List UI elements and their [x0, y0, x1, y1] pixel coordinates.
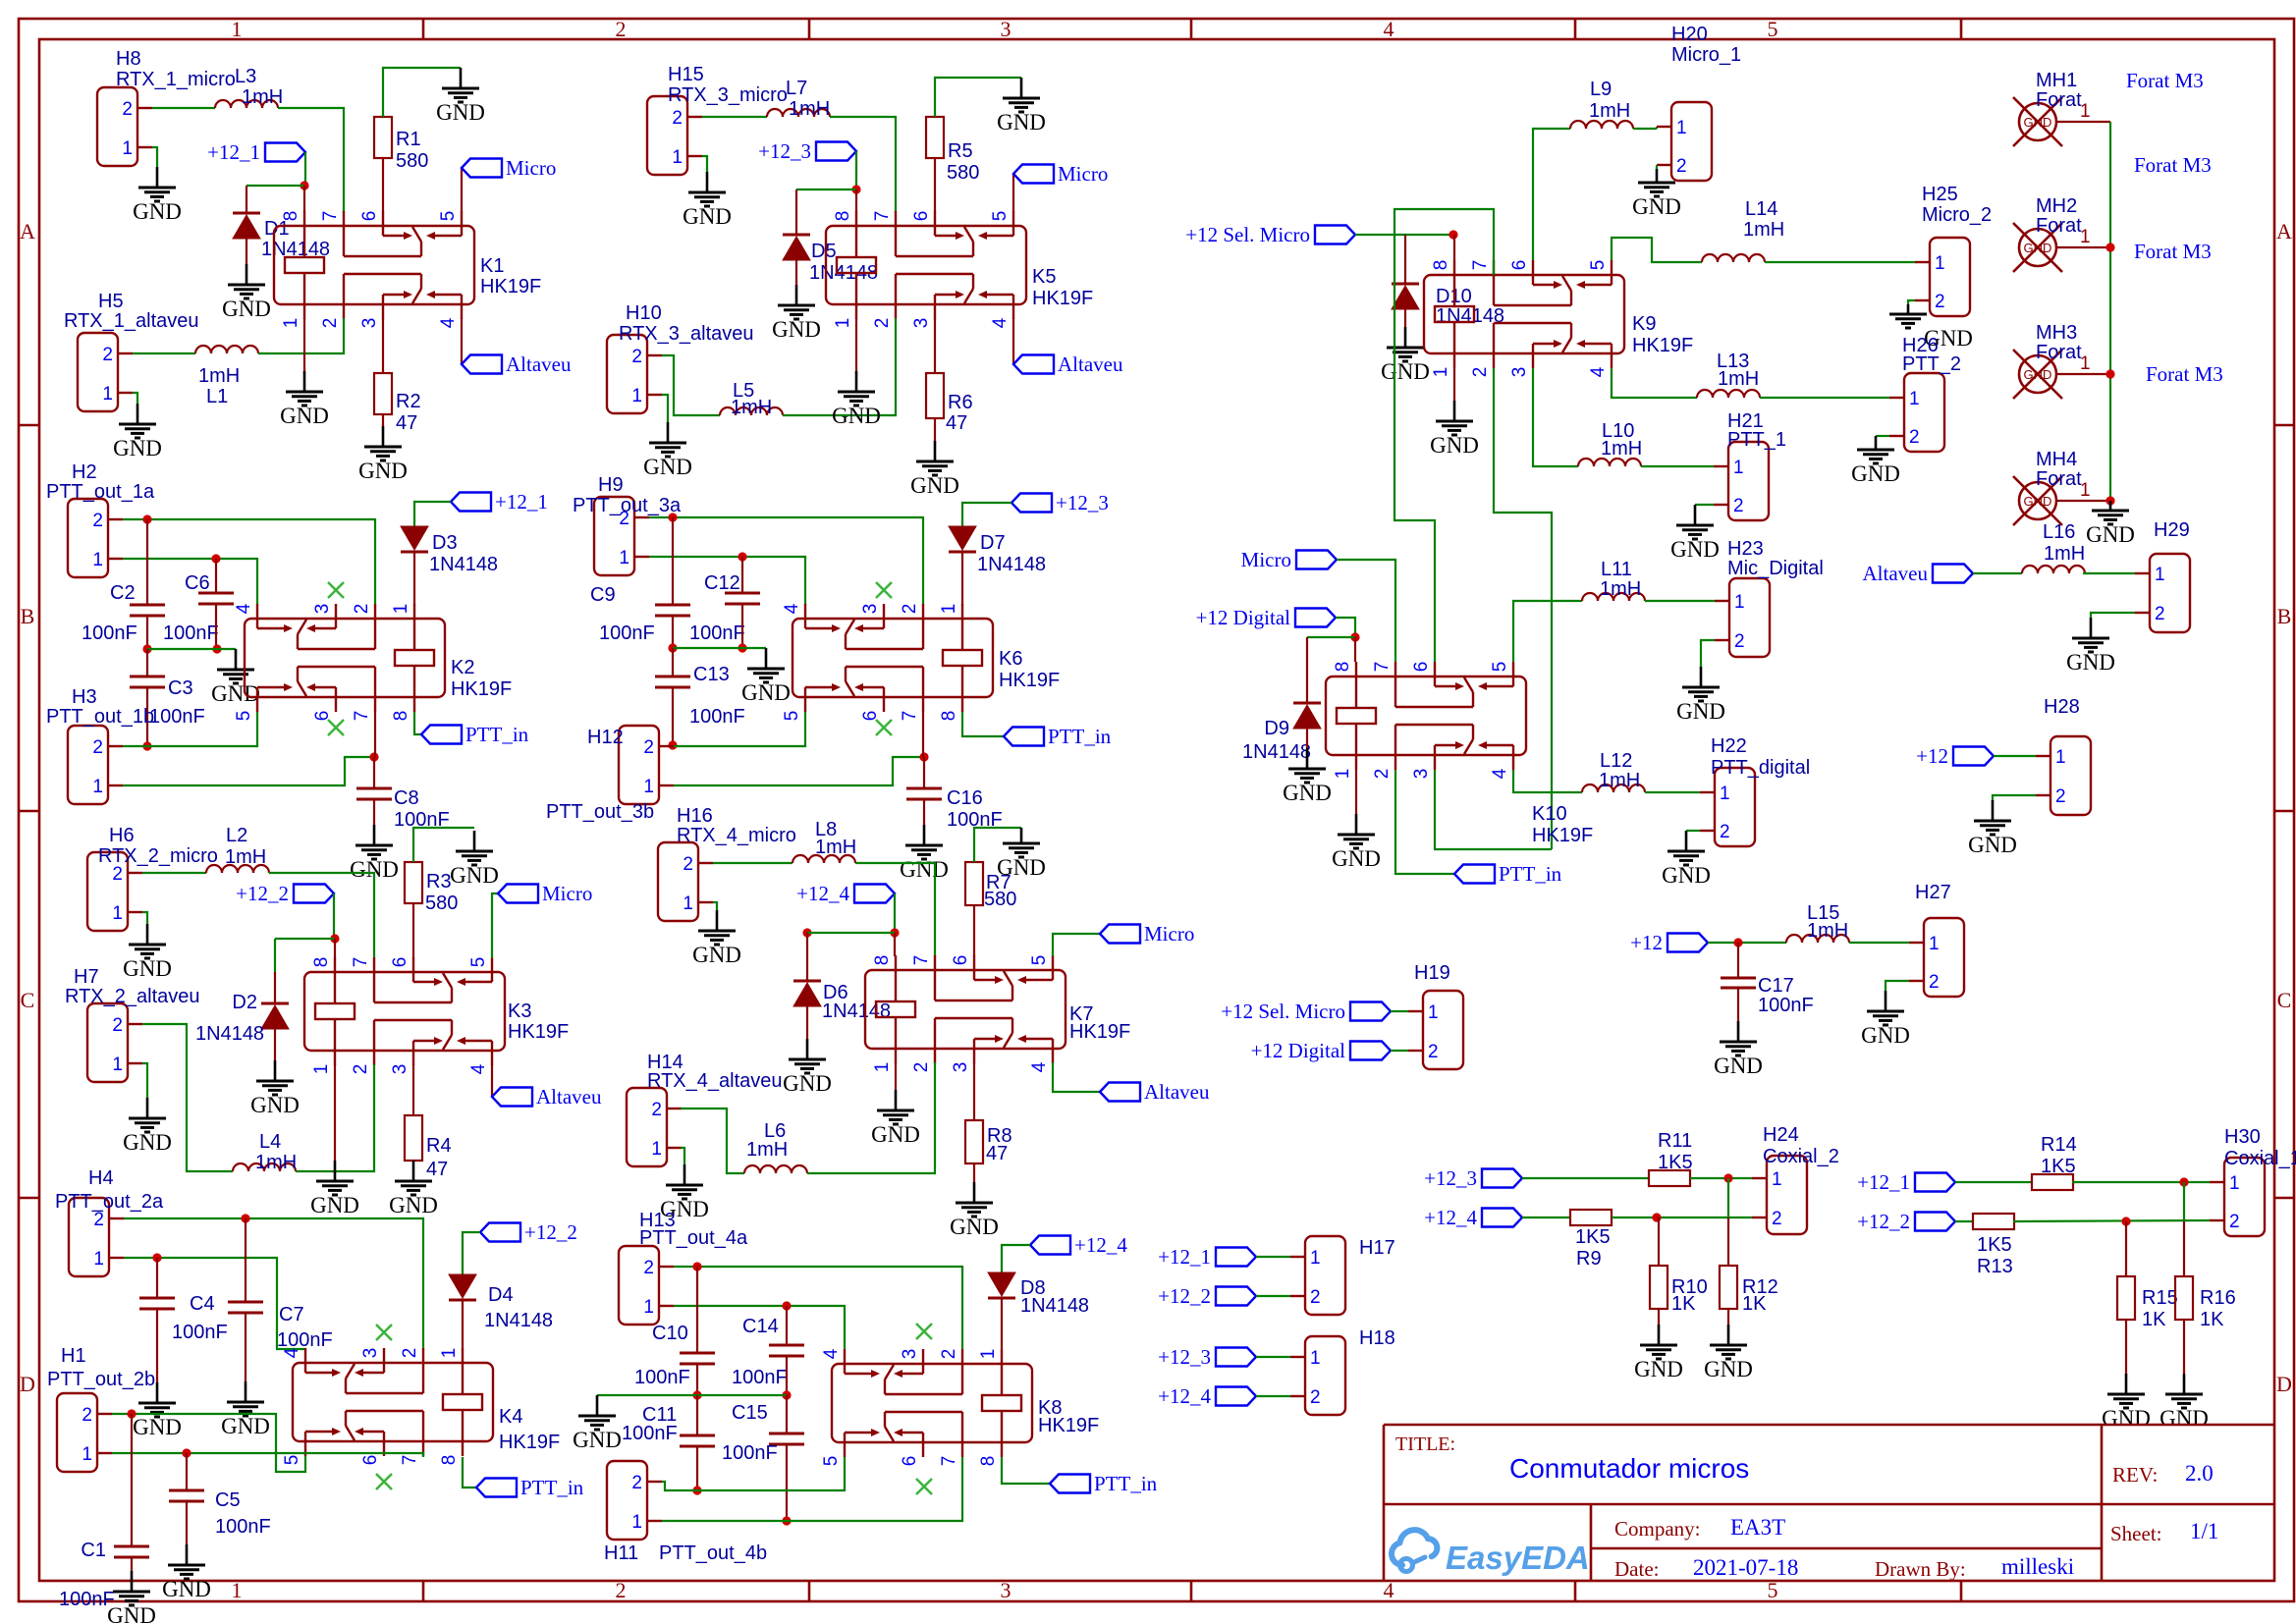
net flag +12 b: [1953, 747, 1994, 766]
svg-text:5: 5: [1768, 17, 1778, 41]
connector H23 Mic_Digital: [1729, 578, 1770, 657]
svg-text:1: 1: [1333, 769, 1353, 780]
relay K1 HK19F: [274, 226, 474, 304]
junction on H13.1: [782, 1301, 791, 1310]
svg-text:R9: R9: [1576, 1248, 1602, 1270]
junction +12_4 a: [890, 928, 899, 937]
svg-text:H6: H6: [109, 825, 135, 846]
wire L12 to H22 pin1: [1645, 791, 1700, 793]
svg-text:Forat: Forat: [2036, 215, 2082, 237]
junction C13 bottom: [668, 740, 677, 749]
svg-text:2: 2: [1909, 427, 1920, 448]
inductor L16 1mH: [2022, 566, 2085, 573]
capacitor C3 100nF: [146, 649, 148, 676]
ground below K10 pin1: [1355, 814, 1358, 835]
wire H13.1 to K8 pin4: [674, 1306, 845, 1349]
wire C4 to ground: [156, 1309, 158, 1382]
wire R10 drop: [1658, 1217, 1660, 1266]
capacitor C1 100nF: [131, 1414, 133, 1546]
svg-text:1N4148: 1N4148: [977, 554, 1046, 575]
net flag +12_2 d: [1915, 1213, 1955, 1231]
svg-text:D7: D7: [980, 532, 1006, 554]
connector H5 RTX_1_altaveu: [78, 333, 118, 411]
connector H13 PTT_out_4a: [619, 1246, 659, 1325]
wire C3 lower: [146, 687, 148, 746]
wire to H19 pin1: [1391, 1010, 1408, 1012]
svg-text:Coxial_1: Coxial_1: [2224, 1148, 2296, 1169]
diode D2 1N4148: [261, 1002, 289, 1005]
svg-text:2: 2: [616, 1578, 627, 1602]
svg-text:H9: H9: [598, 474, 624, 496]
resistor R9 1K5: [1570, 1210, 1612, 1225]
net flag +12_4 b: [1030, 1236, 1070, 1255]
svg-text:L14: L14: [1745, 198, 1777, 220]
wire H2.1 to K2 pin4: [123, 559, 257, 605]
svg-text:PTT_out_4b: PTT_out_4b: [659, 1542, 767, 1564]
svg-text:3: 3: [1509, 367, 1530, 378]
svg-text:Altaveu: Altaveu: [536, 1085, 602, 1109]
wire R15 drop: [2125, 1221, 2127, 1276]
svg-text:2: 2: [2229, 1212, 2240, 1232]
svg-text:3: 3: [390, 1064, 410, 1075]
connector H24 Coxial_2: [1767, 1156, 1807, 1234]
wire MH2 to bus: [2056, 246, 2110, 248]
junction +12_4 b: [802, 928, 811, 937]
svg-text:2: 2: [122, 99, 133, 120]
svg-text:+12_4: +12_4: [1158, 1384, 1211, 1408]
wire C16 to ground: [923, 799, 925, 825]
svg-text:+12_2: +12_2: [524, 1220, 577, 1244]
svg-text:1: 1: [2155, 565, 2165, 585]
svg-text:580: 580: [984, 889, 1016, 910]
svg-text:Altaveu: Altaveu: [1144, 1080, 1210, 1104]
junction on H2.1 wire: [211, 554, 220, 563]
svg-text:H3: H3: [72, 686, 97, 708]
wire L8 to K7 pin7: [855, 863, 935, 956]
resistor R8 47: [965, 1120, 983, 1163]
ground below R6: [934, 441, 937, 461]
wire K10.5 to L11: [1513, 601, 1582, 662]
wire K7.3 to R8: [973, 1062, 975, 1120]
ground near H27 pin2: [1886, 981, 1909, 991]
svg-text:GND: GND: [133, 199, 182, 224]
net flag +12 a: [1667, 934, 1708, 952]
no-connect K4 pin6: [376, 1474, 392, 1489]
svg-text:1: 1: [872, 1062, 893, 1073]
wire K9.2 long drop: [1494, 368, 1552, 849]
wire D5 to ground: [795, 260, 797, 285]
svg-text:8: 8: [1333, 662, 1353, 673]
capacitor C5 100nF: [186, 1453, 188, 1490]
svg-text:1: 1: [619, 548, 629, 568]
wire K10.4 to L12: [1513, 770, 1582, 792]
svg-text:3: 3: [951, 1062, 971, 1073]
wire K9.5 to L14: [1612, 238, 1702, 262]
svg-text:L2: L2: [226, 825, 247, 846]
capacitor C13 100nF: [672, 648, 674, 676]
ground below D9: [1306, 748, 1309, 769]
svg-text:6: 6: [900, 1456, 920, 1467]
svg-text:3: 3: [312, 604, 333, 615]
wire D2 to ground: [274, 1029, 276, 1060]
net flag Micro: [462, 159, 502, 178]
ground below C4: [156, 1382, 159, 1403]
wire K4.8 to PTT_in: [463, 1457, 476, 1488]
svg-text:7: 7: [939, 1456, 959, 1467]
net flag PTT_in c: [1004, 728, 1044, 746]
svg-text:Altaveu: Altaveu: [1863, 562, 1929, 585]
svg-text:2: 2: [1733, 496, 1744, 516]
svg-text:1: 1: [391, 604, 411, 615]
svg-text:GND: GND: [910, 473, 959, 498]
wire K9.1 to ground: [1453, 368, 1455, 401]
svg-text:RTX_3_altaveu: RTX_3_altaveu: [619, 323, 754, 345]
svg-text:Micro: Micro: [1144, 922, 1194, 946]
wire K5.5 to Micro: [1012, 174, 1014, 212]
svg-text:8: 8: [939, 711, 959, 722]
svg-text:GND: GND: [772, 317, 821, 342]
junction C8 node: [369, 752, 378, 761]
svg-text:H20: H20: [1671, 24, 1708, 45]
svg-text:+12: +12: [1916, 744, 1948, 768]
wire K9.3 to L10: [1533, 368, 1578, 466]
svg-text:K9: K9: [1632, 313, 1656, 335]
ground below D2: [274, 1060, 277, 1081]
svg-text:Micro_2: Micro_2: [1922, 204, 1992, 226]
wire R10 to ground: [1658, 1309, 1660, 1325]
svg-text:MH1: MH1: [2036, 70, 2077, 91]
svg-text:1: 1: [92, 550, 103, 570]
junction C11 bottom: [692, 1486, 701, 1494]
svg-text:D3: D3: [432, 532, 458, 554]
wire +12SelMicro to K9.8: [1355, 234, 1453, 236]
capacitor C9 100nF: [672, 517, 674, 605]
net flag Altaveu e: [1933, 565, 1973, 583]
svg-text:6: 6: [1411, 662, 1432, 673]
net flag PTT_in b: [476, 1479, 517, 1497]
svg-text:+12_2: +12_2: [1857, 1210, 1910, 1233]
capacitor C7 100nF: [245, 1218, 246, 1302]
svg-text:1: 1: [1929, 934, 1940, 954]
svg-text:3: 3: [360, 1348, 381, 1359]
svg-text:H8: H8: [116, 48, 141, 70]
svg-text:1: 1: [439, 1348, 460, 1359]
wire H14.2 to L6: [681, 1109, 744, 1173]
svg-text:HK19F: HK19F: [508, 1021, 569, 1043]
junction C6 bottom: [212, 644, 221, 653]
svg-text:1: 1: [1935, 253, 1945, 274]
wire L1 to K1 pin2: [258, 318, 344, 353]
junction on H1.1: [182, 1448, 191, 1457]
svg-text:H17: H17: [1359, 1237, 1395, 1259]
diode D9 1N4148: [1293, 702, 1321, 705]
capacitor C14 100nF: [786, 1306, 788, 1345]
svg-text:47: 47: [426, 1159, 448, 1180]
net flag PTT_in d: [1050, 1475, 1090, 1493]
svg-text:1: 1: [2229, 1173, 2240, 1194]
title block frame: [1384, 1424, 2274, 1427]
resistor R2 47: [374, 373, 392, 414]
connector H21 PTT_1: [1728, 442, 1769, 520]
resistor R14 1K5: [2032, 1174, 2073, 1190]
svg-text:GND: GND: [1676, 699, 1725, 724]
resistor R15 1K: [2117, 1276, 2135, 1320]
svg-text:C9: C9: [590, 584, 616, 606]
wire K1.4 to Altaveu flag: [461, 318, 463, 364]
svg-text:H4: H4: [88, 1167, 114, 1189]
svg-text:R16: R16: [2200, 1287, 2236, 1309]
net flag Altaveu c: [1013, 355, 1054, 374]
svg-text:C16: C16: [947, 787, 983, 809]
svg-text:6: 6: [1509, 260, 1530, 271]
wire H1.2 to K4 pin5: [112, 1414, 305, 1472]
wire H6.2 to L2: [142, 872, 206, 874]
svg-text:6: 6: [360, 1455, 381, 1466]
svg-text:8: 8: [391, 711, 411, 722]
ground below D5: [795, 285, 798, 305]
svg-text:GND: GND: [310, 1193, 359, 1217]
capacitor C17 100nF: [1737, 943, 1739, 978]
svg-text:GND: GND: [280, 404, 329, 428]
svg-text:2: 2: [872, 318, 893, 329]
svg-text:8: 8: [833, 211, 853, 222]
svg-text:C: C: [2277, 988, 2292, 1012]
svg-text:GND: GND: [1634, 1357, 1683, 1381]
svg-text:3: 3: [900, 1349, 920, 1360]
junction R9 out: [1652, 1213, 1661, 1221]
svg-text:PTT_out_1a: PTT_out_1a: [46, 481, 155, 503]
svg-text:2: 2: [900, 604, 920, 615]
wire +12_3 to D7: [962, 503, 1011, 528]
svg-text:C12: C12: [704, 572, 740, 594]
svg-text:K6: K6: [999, 648, 1022, 670]
wire K1.5 to Micro flag: [461, 168, 463, 212]
wire to H17 pin2: [1256, 1295, 1290, 1297]
wire D9 to ground: [1306, 729, 1308, 748]
svg-text:1N4148: 1N4148: [429, 554, 498, 575]
connector H29: [2150, 554, 2190, 632]
no-connect K6 pin6: [876, 720, 892, 735]
inductor L9 1mH: [1570, 121, 1633, 129]
wire to R13: [1955, 1220, 1974, 1222]
wire D3 to K2 pin1: [413, 552, 415, 605]
inductor L4 1mH: [233, 1163, 296, 1171]
svg-text:RTX_4_micro: RTX_4_micro: [677, 825, 796, 846]
diode D7 1N4148: [949, 551, 976, 554]
svg-text:8: 8: [1431, 260, 1451, 271]
junction +12SelMicro: [1449, 230, 1457, 239]
inductor L5 1mH: [720, 407, 783, 415]
diode D1 1N4148: [233, 212, 260, 215]
svg-text:580: 580: [947, 162, 979, 184]
svg-text:Altaveu: Altaveu: [1058, 352, 1123, 376]
svg-text:8: 8: [311, 957, 332, 968]
svg-text:D: D: [20, 1372, 35, 1396]
svg-text:C2: C2: [110, 582, 136, 604]
net flag +12_3 c: [1216, 1348, 1256, 1367]
wire +12 to L15: [1708, 942, 1786, 944]
wire R5 to ground: [935, 78, 1021, 117]
svg-text:C17: C17: [1758, 975, 1794, 997]
svg-text:8: 8: [978, 1456, 999, 1467]
svg-text:1mH: 1mH: [1600, 578, 1641, 600]
junction R13 out: [2121, 1217, 2130, 1225]
svg-text:GND: GND: [2086, 522, 2135, 547]
svg-text:GND: GND: [123, 1130, 172, 1155]
svg-text:3: 3: [359, 318, 380, 329]
svg-text:C3: C3: [168, 677, 193, 699]
inductor L8 1mH: [793, 855, 855, 863]
junction C10 bottom: [692, 1390, 701, 1399]
ground below C5: [186, 1544, 189, 1565]
connector H27: [1924, 918, 1964, 997]
wire K5.1 to ground: [855, 318, 857, 374]
connector H22 PTT_digital: [1715, 768, 1755, 846]
svg-text:2: 2: [1772, 1209, 1782, 1229]
svg-text:R1: R1: [396, 129, 421, 150]
svg-text:GND: GND: [1430, 433, 1479, 458]
ground left of caps row: [596, 1395, 599, 1416]
wire H3.2 to K2 pin5: [123, 711, 257, 746]
svg-text:4: 4: [821, 1348, 842, 1359]
wire K3.1 to ground: [334, 1064, 336, 1161]
inductor L1 1mH: [195, 346, 258, 353]
inductor L15 1mH: [1786, 935, 1849, 943]
svg-text:GND: GND: [221, 1414, 270, 1438]
capacitor C2 100nF: [146, 519, 148, 605]
svg-text:D5: D5: [811, 241, 837, 262]
svg-text:1: 1: [112, 1055, 123, 1075]
svg-text:HK19F: HK19F: [499, 1432, 560, 1453]
wire +12_3 down: [855, 151, 857, 189]
wire K9.4 to L13: [1612, 368, 1697, 398]
svg-text:5: 5: [782, 711, 802, 722]
svg-text:K1: K1: [480, 255, 504, 277]
svg-text:R13: R13: [1977, 1256, 2013, 1277]
wire to H18 pin2: [1256, 1395, 1290, 1397]
svg-text:HK19F: HK19F: [1069, 1021, 1130, 1043]
svg-text:B: B: [21, 604, 35, 628]
svg-text:Coxial_2: Coxial_2: [1763, 1146, 1839, 1167]
svg-text:1mH: 1mH: [225, 846, 266, 868]
svg-text:2: 2: [939, 1349, 959, 1360]
ground below C17: [1737, 1021, 1740, 1042]
junction C3 bottom: [142, 741, 151, 750]
wire K3.3 to R4: [412, 1064, 414, 1115]
svg-text:2: 2: [1372, 769, 1393, 780]
wire C11 lower: [696, 1446, 698, 1490]
svg-text:1mH: 1mH: [1601, 438, 1642, 460]
ground below R2: [382, 426, 385, 447]
junction R11 out: [1723, 1173, 1732, 1182]
svg-text:HK19F: HK19F: [1038, 1415, 1099, 1436]
wire R8 to ground: [973, 1163, 975, 1182]
svg-text:GND: GND: [211, 681, 260, 706]
svg-text:A: A: [20, 219, 35, 243]
svg-text:GND: GND: [692, 943, 741, 967]
svg-text:GND: GND: [997, 855, 1046, 880]
net flag +12_2 b: [480, 1223, 520, 1242]
junction C16 node: [919, 752, 928, 761]
svg-text:2: 2: [911, 1062, 932, 1073]
junction C15 bottom: [782, 1516, 791, 1525]
svg-text:PTT_1: PTT_1: [1727, 429, 1786, 451]
svg-text:GND: GND: [683, 204, 732, 229]
wire K2.8 to PTT_in: [414, 711, 421, 734]
svg-text:GND: GND: [450, 863, 499, 888]
wire L13 to H26 pin1: [1760, 397, 1889, 399]
svg-text:47: 47: [396, 412, 417, 434]
svg-text:+12_4: +12_4: [1424, 1206, 1477, 1229]
ground below R10: [1658, 1325, 1661, 1345]
svg-text:1mH: 1mH: [1589, 100, 1630, 122]
svg-text:100nF: 100nF: [1758, 995, 1814, 1016]
wire caps to ground: [147, 648, 236, 650]
svg-text:2: 2: [1470, 367, 1491, 378]
svg-text:+12_3: +12_3: [1158, 1345, 1211, 1369]
svg-text:PTT_out_4a: PTT_out_4a: [639, 1227, 748, 1249]
svg-text:100nF: 100nF: [277, 1329, 333, 1351]
svg-text:6: 6: [312, 711, 333, 722]
junction C9 bottom: [668, 643, 677, 652]
resistor R3 580: [405, 862, 422, 903]
svg-text:HK19F: HK19F: [1032, 288, 1093, 309]
inductor L14 1mH: [1702, 254, 1765, 262]
wire K6.8 to PTT_in: [962, 711, 1004, 736]
wire L10 to H21 pin1: [1641, 465, 1714, 467]
svg-text:PTT_in: PTT_in: [465, 723, 529, 746]
svg-text:C15: C15: [732, 1402, 768, 1424]
svg-text:K3: K3: [508, 1001, 531, 1022]
wire K3.5 to Micro: [492, 893, 498, 958]
wire K5.6 to R5: [934, 158, 936, 212]
svg-text:+12 Digital: +12 Digital: [1251, 1039, 1346, 1062]
svg-text:2: 2: [1676, 156, 1687, 177]
svg-text:Micro_1: Micro_1: [1671, 44, 1741, 66]
wire R1 to ground: [383, 68, 461, 117]
resistor R6 47: [926, 373, 944, 418]
wire MH4 to bus: [2056, 500, 2110, 502]
capacitor C4 100nF: [156, 1258, 158, 1298]
net flag Micro b: [498, 885, 538, 903]
svg-text:H24: H24: [1763, 1124, 1799, 1146]
wire H7.2 to L4: [142, 1024, 233, 1171]
svg-text:1mH: 1mH: [242, 86, 283, 108]
svg-text:1/1: 1/1: [2190, 1519, 2218, 1543]
svg-text:100nF: 100nF: [622, 1423, 678, 1444]
junction on H13.2: [692, 1262, 701, 1271]
wire L15 to H27 pin1: [1849, 942, 1909, 944]
wire R2 to ground: [382, 414, 384, 426]
ground below D10: [1404, 327, 1407, 348]
wire H16.2 to L8: [713, 862, 793, 864]
svg-text:C5: C5: [215, 1489, 241, 1511]
wire caps to ground b: [673, 647, 766, 649]
svg-text:C: C: [21, 988, 35, 1012]
svg-text:3: 3: [1001, 1578, 1011, 1602]
svg-text:R11: R11: [1658, 1130, 1692, 1152]
ground near H29 pin2: [2091, 613, 2135, 618]
wire H1.1 to K4 pin7: [112, 1453, 423, 1457]
svg-text:Drawn By:: Drawn By:: [1875, 1557, 1966, 1581]
svg-text:7: 7: [351, 957, 371, 968]
mounting hole MH1: [2019, 103, 2056, 140]
ground below R15: [2125, 1374, 2128, 1394]
svg-text:2: 2: [616, 17, 627, 41]
svg-text:1N4148: 1N4148: [1020, 1295, 1089, 1317]
wire C14 lower: [786, 1356, 788, 1395]
wire H8.2 to L3: [152, 107, 215, 109]
